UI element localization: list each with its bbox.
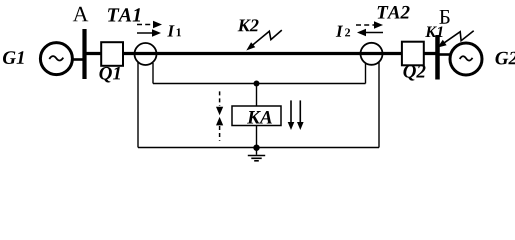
- wire: bottom bus TA1 to TA2: [138, 147, 379, 149]
- current I2 label: [336, 26, 343, 37]
- node: bottom junction: [253, 145, 259, 151]
- node: top junction: [254, 81, 260, 87]
- wire: TA1 secondary left down to bottom bus: [137, 62, 139, 148]
- CT TA1 label: [108, 8, 140, 21]
- ground: [248, 151, 265, 161]
- wire: relay KA to bottom bus: [256, 126, 258, 148]
- arrow: current I2: [357, 29, 383, 36]
- breaker Q1: [101, 42, 123, 66]
- generator G1 label: [3, 51, 24, 64]
- wire: top bus TA1 to TA2: [153, 83, 366, 85]
- arrow: current I1: [137, 29, 161, 36]
- breaker Q2: [402, 42, 424, 66]
- node B busbar: [435, 35, 440, 80]
- generator G2: [450, 43, 482, 75]
- fault K2 label: [238, 19, 259, 31]
- CT TA1: [135, 43, 157, 65]
- node A label: [73, 7, 89, 22]
- wire: TA2 secondary right down to bottom bus: [378, 62, 380, 148]
- relay KA: [232, 106, 281, 126]
- wire: main line bus A to bus B: [85, 52, 437, 55]
- generator G2 label: [495, 52, 515, 65]
- current I1 label: [167, 25, 174, 36]
- arrow: TA2 polarity (dashed): [356, 21, 383, 28]
- wire: bus B to G2: [437, 53, 450, 56]
- fault K2 lightning arrow: [246, 30, 281, 50]
- wire: G1 to bus A: [73, 58, 85, 61]
- wire: junction to relay KA: [256, 84, 258, 107]
- breaker Q2 label: [403, 65, 425, 81]
- CT TA2: [361, 43, 383, 65]
- fault K1 label: [425, 26, 442, 37]
- arrow: TA1 polarity (dashed): [137, 21, 162, 28]
- wire: TA2 secondary left down to top bus: [365, 63, 367, 84]
- node B label: [439, 10, 449, 24]
- generator G1: [40, 43, 72, 75]
- breaker Q1 label: [99, 67, 120, 83]
- CT TA2 label: [378, 6, 410, 19]
- relay actuation dashed double arrow: [216, 91, 223, 140]
- wire: TA1 secondary right down to top bus: [152, 63, 154, 84]
- trip arrows right of KA: [288, 100, 304, 130]
- fault K1 lightning arrow: [437, 31, 473, 48]
- node A busbar: [82, 29, 86, 79]
